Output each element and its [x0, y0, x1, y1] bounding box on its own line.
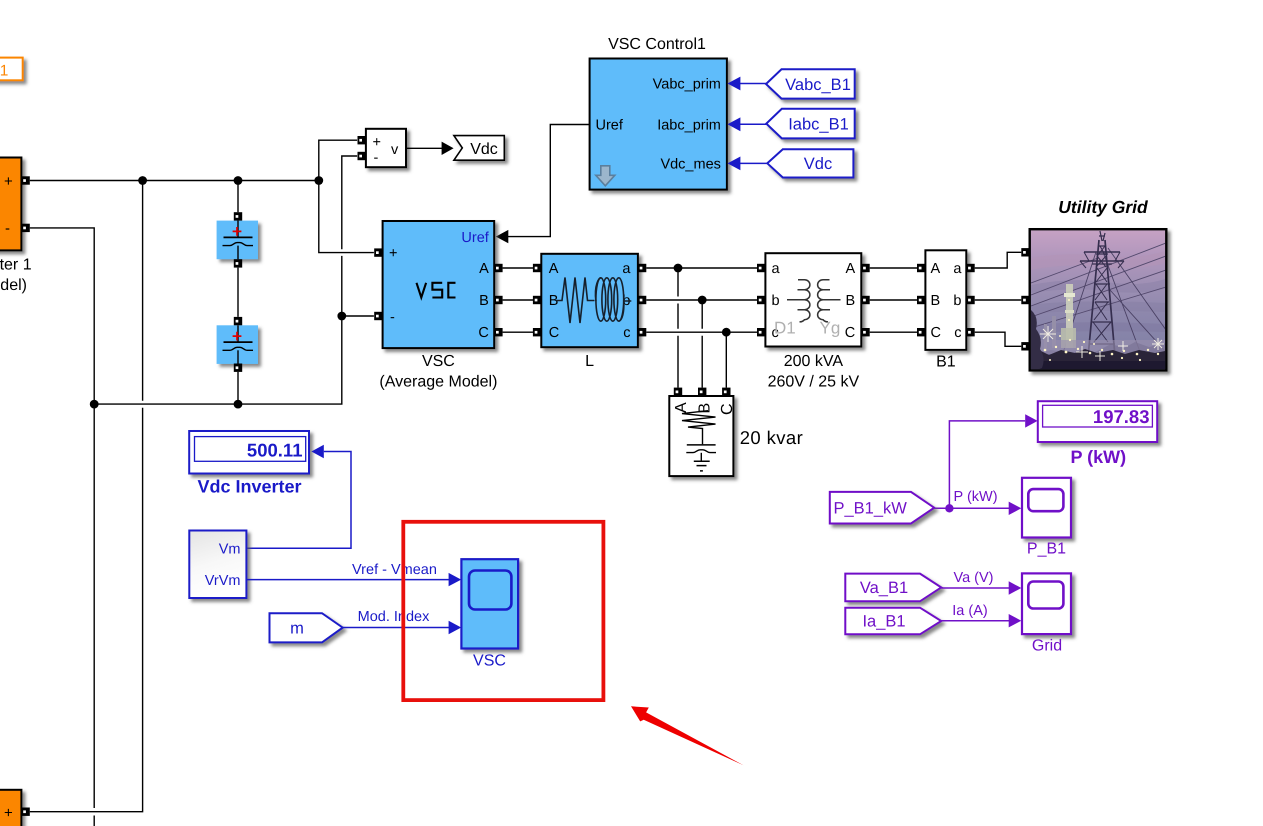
- svg-text:-: -: [374, 150, 379, 166]
- from tag Va_B1: [845, 574, 941, 602]
- wire Iabc_B1 to controller: [740, 123, 766, 125]
- port B1 B: [917, 296, 925, 304]
- port C1 bottom: [234, 259, 242, 267]
- arrowhead scope VSC input 1: [449, 573, 462, 586]
- dark foreground city: [1031, 349, 1165, 371]
- svg-text:Iabc_prim: Iabc_prim: [657, 118, 721, 134]
- port B1 b: [966, 296, 974, 304]
- port VSC C: [494, 328, 502, 336]
- svg-text:B1: B1: [936, 354, 956, 371]
- port voltmeter +: [358, 136, 366, 144]
- port VSC +: [374, 248, 382, 256]
- wire B1 b to grid: [975, 299, 1022, 301]
- port L C: [533, 328, 541, 336]
- port L a: [638, 264, 646, 272]
- svg-text:1: 1: [0, 62, 8, 79]
- svg-text:Vdc: Vdc: [470, 141, 498, 158]
- svg-text:Utility Grid: Utility Grid: [1058, 197, 1148, 217]
- junction dot phase B: [698, 296, 707, 305]
- junction dot DC+ at x238: [234, 176, 243, 185]
- svg-text:Uref: Uref: [596, 118, 624, 134]
- junction dot phase C: [722, 328, 731, 337]
- block 20 kvar load: [669, 396, 803, 476]
- red annotation arrow: [631, 706, 744, 765]
- svg-text:Vabc_prim: Vabc_prim: [653, 77, 721, 93]
- svg-text:c: c: [954, 325, 961, 341]
- arrowhead scope Grid input 2: [1009, 614, 1022, 627]
- from tag Vdc: [767, 149, 853, 177]
- port B1 c: [966, 328, 974, 336]
- svg-text:Ia (A): Ia (A): [952, 603, 987, 619]
- wire capacitor chain segments: [237, 181, 239, 405]
- svg-text:P (kW): P (kW): [1070, 447, 1126, 467]
- svg-text:C: C: [478, 325, 488, 341]
- svg-text:Inverter 1: Inverter 1: [0, 257, 32, 274]
- svg-text:a: a: [622, 261, 631, 277]
- svg-text:VSC: VSC: [473, 653, 506, 670]
- svg-text:b: b: [772, 293, 780, 309]
- svg-text:VrVm: VrVm: [205, 573, 241, 589]
- port transformer C: [861, 328, 869, 336]
- wire VSC A to L A: [503, 267, 533, 269]
- load icon: resistor, capacitor, ground (rotated): [682, 411, 716, 445]
- wire transformer B to B1 B: [870, 299, 917, 301]
- port VSC B: [494, 296, 502, 304]
- from tag m: [270, 613, 343, 642]
- svg-text:B: B: [846, 293, 856, 309]
- port VSC -: [374, 312, 382, 320]
- svg-text:197.83: 197.83: [1093, 406, 1150, 427]
- svg-text:A: A: [673, 402, 690, 413]
- svg-text:VSC: VSC: [422, 353, 455, 370]
- port L A: [533, 264, 541, 272]
- svg-text:P_B1_kW: P_B1_kW: [834, 500, 908, 518]
- svg-text:Vdc_mes: Vdc_mes: [660, 157, 720, 173]
- power lines: [1031, 243, 1166, 328]
- red highlight rectangle: [403, 522, 603, 700]
- svg-text:c: c: [623, 325, 630, 341]
- wire transformer C to B1 C: [870, 331, 917, 333]
- port transformer b: [757, 296, 765, 304]
- wire VrVm to scope: [246, 579, 450, 581]
- scope P_B1: [1022, 478, 1071, 558]
- arrowhead Vabc_prim: [728, 77, 741, 91]
- port load C: [722, 388, 730, 396]
- wire P_B1_kW to display: [949, 421, 1025, 508]
- scope VSC: [461, 559, 518, 669]
- svg-text:Uref: Uref: [461, 230, 489, 246]
- port B1 a: [966, 264, 974, 272]
- junction dot phase A: [674, 264, 683, 273]
- scope Grid: [1022, 573, 1071, 654]
- wire phase C down to load: [725, 332, 727, 387]
- svg-text:Vdc: Vdc: [804, 155, 832, 173]
- mask arrow icon: [596, 166, 615, 186]
- junction dot DC+ at x142: [138, 176, 147, 185]
- svg-text:C: C: [719, 403, 736, 415]
- port B1 A: [917, 264, 925, 272]
- wire L c to transformer c: [646, 331, 757, 333]
- VSC stylized logo: [417, 283, 427, 298]
- svg-text:+: +: [4, 804, 13, 821]
- block transformer 200 kVA: [765, 253, 861, 390]
- wire voltmeter output: [406, 147, 442, 149]
- port load B: [698, 388, 706, 396]
- svg-text:A: A: [846, 261, 856, 277]
- port L c: [638, 328, 646, 336]
- svg-text:m: m: [290, 620, 304, 638]
- svg-text:C: C: [931, 325, 941, 341]
- wire voltmeter plus / VSC plus branch: [319, 140, 374, 252]
- port L B: [533, 296, 541, 304]
- wire VSC C to L C: [503, 331, 533, 333]
- inductor icon: [556, 278, 595, 324]
- block Inverter 2 (orange, clipped at bottom-left corner): [0, 790, 21, 826]
- svg-text:20 kvar: 20 kvar: [740, 427, 803, 448]
- arrowhead scope P_B1: [1009, 502, 1022, 515]
- wire VSC minus stub: [342, 315, 374, 317]
- wire DC+ rail: [30, 180, 319, 182]
- svg-text:A: A: [479, 261, 489, 277]
- svg-text:Iabc_B1: Iabc_B1: [788, 116, 849, 134]
- block B1 measurement: [925, 250, 966, 370]
- svg-text:Ia_B1: Ia_B1: [862, 613, 905, 631]
- arrowhead into Vdc goto: [442, 142, 454, 155]
- voltmeter Vdc measurement: [366, 129, 406, 167]
- display Vdc Inverter 500.11: [189, 431, 309, 497]
- svg-text:P_B1: P_B1: [1027, 541, 1066, 558]
- arrowhead Vdc_mes: [728, 157, 741, 171]
- winding primary: [798, 280, 810, 322]
- junction dot bottom rail x94: [90, 400, 99, 409]
- port transformer A: [861, 264, 869, 272]
- arrowhead into display 197.83: [1025, 414, 1037, 427]
- winding secondary: [818, 280, 830, 322]
- svg-text:-: -: [5, 220, 10, 237]
- port transformer c: [757, 328, 765, 336]
- svg-text:500.11: 500.11: [247, 440, 303, 461]
- svg-text:260V / 25 kV: 260V / 25 kV: [768, 373, 860, 390]
- svg-text:C: C: [549, 325, 559, 341]
- wire Va_B1 to scope Grid: [941, 587, 1010, 589]
- port L b: [638, 296, 646, 304]
- svg-text:Vref - Vmean: Vref - Vmean: [352, 562, 437, 578]
- capacitor C1: [217, 221, 258, 260]
- svg-text:a: a: [772, 261, 781, 277]
- svg-text:+: +: [4, 173, 13, 190]
- port Inverter1 -: [21, 224, 29, 232]
- svg-text:a: a: [953, 261, 962, 277]
- svg-text:A: A: [549, 261, 559, 277]
- arrowhead scope Grid input 1: [1009, 581, 1022, 594]
- svg-text:C: C: [845, 325, 855, 341]
- svg-text:(Average Model): (Average Model): [379, 373, 497, 390]
- block Inverter 1 (orange, clipped at left edge): [0, 158, 32, 294]
- from tag Ia_B1: [845, 608, 941, 635]
- svg-text:200 kVA: 200 kVA: [784, 353, 844, 370]
- junction dot P: [945, 504, 953, 512]
- inport tag 1 (orange, clipped at left edge): [0, 58, 23, 81]
- wire Vabc_B1 to controller: [740, 83, 766, 85]
- port voltmeter -: [358, 152, 366, 160]
- block VSC (Average Model): [379, 221, 497, 390]
- lights: [1044, 299, 1160, 361]
- port C2 top: [234, 317, 242, 325]
- wire P_B1_kW to scope P_B1: [934, 507, 1010, 509]
- port C2 bottom: [234, 364, 242, 372]
- arrowhead Uref into VSC: [496, 230, 509, 243]
- svg-text:Va (V): Va (V): [953, 570, 993, 586]
- wire m to scope: [343, 627, 450, 629]
- junction dot bottom rail x238: [234, 400, 243, 409]
- arrowhead Iabc_prim: [728, 117, 741, 131]
- wire DC- bottom rail up to voltmeter minus: [94, 156, 357, 404]
- wire Vm to display: [246, 452, 351, 549]
- wire Vdc to controller: [740, 162, 767, 164]
- port grid 3: [1021, 342, 1029, 350]
- svg-text:Mod. Index: Mod. Index: [358, 609, 430, 625]
- wire Ia_B1 to scope Grid: [941, 620, 1010, 622]
- junction dot DC+ at x318: [314, 176, 323, 185]
- cloud streaks: [1031, 251, 1166, 270]
- wire phase A down to load: [677, 268, 679, 388]
- refinery tower: [1066, 284, 1073, 348]
- wire phase B down to load: [701, 300, 703, 388]
- svg-text:b: b: [953, 293, 961, 309]
- svg-text:Vabc_B1: Vabc_B1: [785, 76, 851, 94]
- wire DC- from inverter to vertical x94: [30, 228, 94, 826]
- svg-text:Va_B1: Va_B1: [860, 579, 908, 597]
- svg-text:-: -: [390, 310, 395, 326]
- svg-text:v: v: [391, 142, 399, 158]
- svg-text:Yg: Yg: [820, 319, 841, 338]
- svg-text:(Average Model): (Average Model): [0, 277, 27, 294]
- svg-text:L: L: [585, 353, 594, 370]
- port C1 top: [234, 212, 242, 220]
- svg-text:Vdc Inverter: Vdc Inverter: [197, 477, 301, 497]
- port grid 1: [1021, 248, 1029, 256]
- from tag Vabc_B1: [766, 69, 855, 98]
- wire B1 a to grid: [975, 252, 1022, 268]
- sparkle flares: [1040, 326, 1164, 361]
- mountains: [1095, 342, 1166, 368]
- svg-text:VSC Control1: VSC Control1: [608, 36, 706, 53]
- port VSC A: [494, 264, 502, 272]
- from tag Iabc_B1: [766, 109, 854, 139]
- svg-text:P (kW): P (kW): [954, 489, 998, 505]
- port transformer B: [861, 296, 869, 304]
- svg-text:+: +: [389, 246, 397, 262]
- block Vm VrVm source: [189, 531, 246, 599]
- display P (kW) 197.83: [1038, 401, 1157, 467]
- wire transformer A to B1 A: [870, 267, 917, 269]
- svg-text:+: +: [373, 135, 381, 151]
- capacitor C2: [217, 325, 258, 364]
- wire B1 c to grid: [975, 332, 1022, 346]
- svg-text:D1: D1: [774, 319, 796, 338]
- port Inverter2 +: [21, 808, 29, 816]
- junction dot VSC minus x341: [337, 312, 346, 321]
- svg-text:B: B: [931, 293, 941, 309]
- city glow band: [1031, 340, 1165, 354]
- block L (three-phase inductor): [541, 254, 638, 370]
- port Inverter1 +: [21, 176, 29, 184]
- port B1 C: [917, 328, 925, 336]
- arrowhead scope VSC input 2: [449, 621, 462, 634]
- trees left: [1031, 310, 1044, 372]
- port transformer a: [757, 264, 765, 272]
- wire L b to transformer b: [646, 299, 757, 301]
- port grid 2: [1021, 296, 1029, 304]
- wire VSC B to L B: [503, 299, 533, 301]
- wire Uref from controller to VSC: [508, 125, 590, 237]
- svg-text:A: A: [931, 261, 941, 277]
- svg-text:B: B: [479, 293, 489, 309]
- block VSC Control1: [590, 36, 727, 190]
- arrowhead into display 500.11: [311, 445, 323, 458]
- from tag P_B1_kW: [830, 492, 934, 524]
- goto tag Vdc: [454, 136, 504, 161]
- svg-text:Vm: Vm: [219, 542, 241, 558]
- block Utility Grid (photo): [1030, 197, 1167, 372]
- transmission tower: [1080, 231, 1124, 368]
- wire L a to transformer a: [646, 267, 757, 269]
- port load A: [674, 388, 682, 396]
- wire vertical x142.6 to bottom inverter: [30, 181, 143, 812]
- svg-text:Grid: Grid: [1032, 638, 1062, 655]
